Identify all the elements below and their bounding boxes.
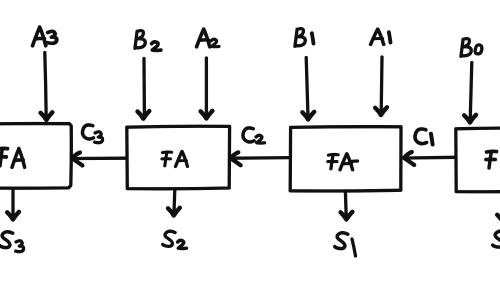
FA label bit3: letter F (0, 148, 8, 165)
FA label bit3: letter A (12, 149, 25, 168)
sum S2 label (163, 231, 175, 246)
input B1 label (295, 29, 305, 47)
input A1 label (371, 29, 384, 45)
input B1 arrowhead (302, 112, 314, 120)
full adder FA box bit0 (rightmost, cut off) (456, 128, 500, 192)
input B2 arrowhead (138, 111, 150, 119)
input A3 arrowhead (41, 112, 53, 120)
sum S3 arrowhead (7, 212, 19, 220)
sum S3 label (0, 232, 13, 248)
sum S2 arrowhead (168, 208, 180, 216)
carry C1 arrowhead (404, 152, 414, 165)
input B2 wire (142, 59, 146, 117)
input A3 label (33, 27, 46, 46)
sum S0 arrowhead (partially visible) (497, 214, 500, 222)
carry C2 arrowhead (231, 152, 241, 165)
input A1 arrowhead (375, 107, 387, 115)
full adder FA box bit3 (leftmost, cut off) (0, 124, 71, 189)
FA label bit0: letter F (partially visible) (486, 151, 497, 168)
FA label bit2: letter A (176, 151, 188, 166)
FA label bit1: letter A (340, 154, 353, 170)
input A2 arrowhead (201, 111, 213, 119)
input A1 wire (380, 57, 384, 113)
sum S1 label (335, 233, 348, 249)
carry C1 label (415, 129, 427, 144)
sum S3 wire (11, 189, 14, 217)
sum S0 label (partially visible) (493, 231, 500, 247)
sum S1 wire (344, 191, 348, 217)
carry C3 label (82, 125, 93, 139)
sum S2 wire (172, 190, 176, 214)
FA label bit1: letter F (328, 154, 338, 168)
input B0 label (461, 39, 471, 57)
input B0 wire (470, 63, 472, 121)
carry C3 arrowhead (72, 153, 82, 166)
carry C2 wire (234, 156, 291, 160)
full adder FA box bit1 (290, 127, 401, 191)
sum S1 arrowhead (341, 212, 353, 220)
carry C2 label (243, 128, 254, 142)
input B1 wire (306, 58, 308, 118)
input A2 label (197, 29, 210, 47)
FA label bit1: A crossbar extension (350, 159, 358, 163)
carry C1 wire (407, 156, 455, 160)
input B2 label (135, 31, 145, 49)
carry C3 wire (75, 157, 126, 161)
input A3 wire (45, 53, 46, 118)
input B0 arrowhead (464, 115, 476, 123)
input A2 wire (205, 58, 208, 116)
full adder FA box bit2 (127, 126, 230, 189)
FA label bit2: letter F (162, 152, 172, 166)
